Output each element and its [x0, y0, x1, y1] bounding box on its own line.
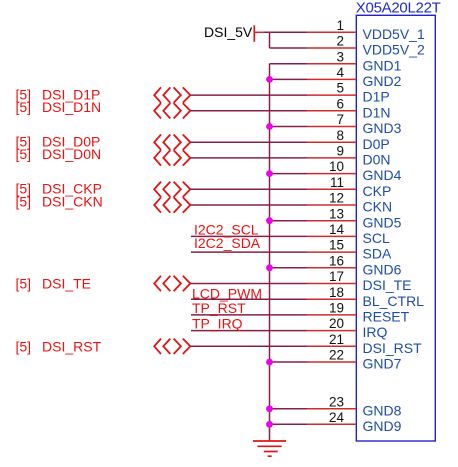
svg-text:SDA: SDA [363, 246, 392, 262]
svg-text:21: 21 [329, 332, 344, 347]
pin 13 number [329, 206, 344, 221]
svg-text:17: 17 [329, 269, 344, 284]
pin 4 (GND2) stub [308, 78, 357, 80]
pin 16 name GND6 [363, 261, 402, 277]
pin 22 (GND7) stub [308, 361, 357, 363]
svg-text:DSI_TE: DSI_TE [42, 276, 91, 292]
pin 1 (VDD5V_1) stub [308, 31, 357, 33]
wire DSI_5V to pin 1 [264, 31, 308, 33]
svg-text:DSI_TE: DSI_TE [363, 277, 412, 293]
svg-text:18: 18 [329, 285, 344, 300]
pin 14 name SCL [363, 230, 390, 246]
junction at pin 10 [266, 170, 273, 177]
svg-text:TP_RST: TP_RST [192, 300, 246, 316]
pin 17 name DSI_TE [363, 277, 412, 293]
label net name DSI_D1P [42, 86, 100, 102]
pin 4 number [336, 65, 344, 80]
svg-text:D0N: D0N [363, 152, 391, 168]
svg-text:I2C2_SDA: I2C2_SDA [194, 235, 261, 251]
svg-text:SCL: SCL [363, 230, 390, 246]
svg-text:16: 16 [329, 253, 344, 268]
svg-text:[5]: [5] [16, 193, 32, 209]
pin 11 number [330, 175, 344, 190]
wire TP_RST to pin 19 [191, 314, 308, 316]
svg-text:DSI_5V: DSI_5V [204, 24, 253, 40]
svg-text:4: 4 [336, 65, 344, 80]
label [5] tag DSI_CKN [16, 193, 32, 209]
svg-text:[5]: [5] [16, 276, 32, 292]
pin 20 name IRQ [363, 324, 388, 340]
label net name TP_RST [192, 300, 246, 316]
wire GND bus to pin 13 [270, 220, 308, 222]
pin 4 name GND2 [363, 73, 402, 89]
wire GND bus to pin 24 [270, 423, 308, 425]
pin 6 (D1N) stub [308, 110, 357, 112]
pin 18 (BL_CTRL) stub [308, 298, 357, 300]
label [5] tag DSI_TE [16, 276, 32, 292]
wire I2C2_SDA to pin 15 [191, 251, 308, 253]
wire DSI_5V to pin 2 [270, 47, 308, 49]
off-page connector DSI_D0N [154, 150, 190, 165]
off-page connector DSI_CKN [154, 197, 190, 212]
pin 17 (DSI_TE) stub [308, 283, 357, 285]
junction at pin 23 [266, 405, 273, 412]
pin 8 number [336, 128, 344, 143]
svg-text:7: 7 [336, 112, 344, 127]
pin 10 number [329, 159, 344, 174]
svg-text:CKN: CKN [363, 199, 393, 215]
pin 8 name D0P [363, 136, 390, 152]
pin 5 number [336, 81, 344, 96]
pin 18 number [329, 285, 344, 300]
pin 14 number [329, 222, 345, 237]
pin 15 number [329, 238, 344, 253]
pin 3 number [336, 49, 344, 64]
label net name I2C2_SDA [194, 235, 261, 251]
svg-text:GND3: GND3 [363, 120, 402, 136]
ground symbol [253, 441, 286, 456]
wire GND bus to pin 16 [270, 267, 308, 269]
connector reference label X05A20L22T [356, 0, 441, 17]
svg-text:1: 1 [336, 18, 344, 33]
label net name DSI_D1N [42, 99, 101, 115]
wire DSI_D1N to pin 6 [191, 110, 308, 112]
pin 6 name D1N [363, 104, 391, 120]
svg-text:GND8: GND8 [363, 402, 402, 418]
svg-text:GND4: GND4 [363, 167, 402, 183]
label net name TP_IRQ [192, 315, 243, 331]
pin 3 name GND1 [363, 57, 402, 73]
svg-text:X05A20L22T: X05A20L22T [356, 0, 441, 17]
pin 22 name GND7 [363, 356, 402, 372]
wire DSI_CKP to pin 11 [191, 188, 308, 190]
svg-text:VDD5V_1: VDD5V_1 [363, 26, 425, 42]
svg-text:DSI_RST: DSI_RST [42, 338, 102, 354]
wire GND bus to pin 3 [270, 63, 308, 65]
svg-text:D0P: D0P [363, 136, 390, 152]
svg-text:RESET: RESET [363, 309, 410, 325]
pin 21 (DSI_RST) stub [308, 345, 357, 347]
pin 20 (IRQ) stub [308, 330, 357, 332]
svg-text:20: 20 [329, 316, 344, 331]
off-page connector DSI_RST [154, 339, 190, 354]
junction at pin 24 [266, 421, 273, 428]
wire TP_IRQ to pin 20 [191, 330, 308, 332]
svg-text:6: 6 [336, 96, 344, 111]
label net name DSI_D0P [42, 134, 100, 150]
junction at pin 7 [266, 123, 273, 130]
svg-text:DSI_RST: DSI_RST [363, 340, 423, 356]
svg-text:DSI_CKN: DSI_CKN [42, 193, 103, 209]
pin 19 name RESET [363, 309, 410, 325]
junction at pin 4 [266, 76, 273, 83]
svg-text:13: 13 [329, 206, 344, 221]
wire DSI_5V lead [254, 31, 263, 33]
svg-text:11: 11 [330, 175, 344, 190]
wire LCD_PWM to pin 18 [191, 298, 308, 300]
svg-text:5: 5 [336, 81, 344, 96]
connector X1 body X05A20L22T [356, 15, 435, 441]
label [5] tag DSI_D0N [16, 146, 32, 162]
off-page connector DSI_D1P [154, 87, 190, 102]
pin 21 number [329, 332, 344, 347]
off-page connector DSI_D1N [154, 103, 190, 118]
label [5] tag DSI_CKP [16, 181, 32, 197]
off-page connector DSI_CKP [154, 182, 190, 197]
svg-text:10: 10 [329, 159, 344, 174]
wire DSI_CKN to pin 12 [191, 204, 308, 206]
pin 20 number [329, 316, 344, 331]
power port DSI_5V bar [253, 25, 255, 42]
label net name LCD_PWM [192, 285, 262, 301]
label net name DSI_CKN [42, 193, 103, 209]
label [5] tag DSI_RST [16, 338, 32, 354]
pin 22 number [329, 348, 344, 363]
pin 16 number [329, 253, 344, 268]
label net name DSI_CKP [42, 181, 102, 197]
label [5] tag DSI_D0P [16, 134, 32, 150]
svg-text:D1P: D1P [363, 89, 390, 105]
svg-text:23: 23 [329, 394, 344, 409]
wire GND bus to pin 7 [270, 126, 308, 128]
svg-text:[5]: [5] [16, 99, 32, 115]
pin 7 (GND3) stub [308, 126, 357, 128]
pin 13 (GND5) stub [308, 220, 357, 222]
wire GND bus to pin 22 [270, 361, 308, 363]
junction at pin 22 [266, 359, 273, 366]
svg-text:[5]: [5] [16, 338, 32, 354]
pin 1 name VDD5V_1 [363, 26, 425, 42]
label net name DSI_RST [42, 338, 102, 354]
svg-text:3: 3 [336, 49, 344, 64]
wire GND bus to pin 10 [270, 173, 308, 175]
pin 9 number [336, 144, 344, 159]
svg-text:GND7: GND7 [363, 356, 402, 372]
pin 17 number [329, 269, 344, 284]
pin 12 number [329, 191, 344, 206]
svg-text:CKP: CKP [363, 183, 392, 199]
svg-text:BL_CTRL: BL_CTRL [363, 293, 425, 309]
svg-text:GND5: GND5 [363, 214, 402, 230]
off-page connector DSI_TE [154, 276, 190, 291]
svg-text:[5]: [5] [16, 146, 32, 162]
svg-text:9: 9 [336, 144, 344, 159]
label net name I2C2_SCL [194, 222, 259, 238]
pin 10 (GND4) stub [308, 173, 357, 175]
svg-text:GND6: GND6 [363, 261, 402, 277]
pin 6 number [336, 96, 344, 111]
label [5] tag DSI_D1N [16, 99, 32, 115]
svg-text:22: 22 [329, 348, 344, 363]
pin 24 (GND9) stub [308, 423, 357, 425]
svg-text:19: 19 [329, 301, 344, 316]
pin 1 number [336, 18, 344, 33]
pin 2 number [336, 34, 344, 49]
pin 21 name DSI_RST [363, 340, 423, 356]
svg-text:12: 12 [329, 191, 344, 206]
pin 18 name BL_CTRL [363, 293, 425, 309]
pin 8 (D0P) stub [308, 141, 357, 143]
wire DSI_TE to pin 17 [191, 283, 308, 285]
pin 23 name GND8 [363, 402, 402, 418]
junction at pin 13 [266, 217, 273, 224]
pin 7 name GND3 [363, 120, 402, 136]
pin 15 (SDA) stub [308, 251, 357, 253]
pin 24 name GND9 [363, 418, 402, 434]
pin 19 (RESET) stub [308, 314, 357, 316]
pin 14 (SCL) stub [308, 235, 357, 237]
pin 2 name VDD5V_2 [363, 42, 425, 58]
pin 5 (D1P) stub [308, 94, 357, 96]
wire DSI_D0N to pin 9 [191, 157, 308, 159]
wire DSI_5V vertical branch [269, 32, 271, 48]
pin 7 number [336, 112, 344, 127]
pin 23 number [329, 394, 344, 409]
label net name DSI_TE [42, 276, 91, 292]
svg-text:GND2: GND2 [363, 73, 402, 89]
wire DSI_D0P to pin 8 [191, 141, 308, 143]
pin 2 (VDD5V_2) stub [308, 47, 357, 49]
pin 12 (CKN) stub [308, 204, 357, 206]
pin 13 name GND5 [363, 214, 402, 230]
pin 10 name GND4 [363, 167, 402, 183]
wire DSI_RST to pin 21 [191, 345, 308, 347]
svg-text:24: 24 [329, 410, 345, 425]
svg-text:TP_IRQ: TP_IRQ [192, 315, 243, 331]
pin 9 name D0N [363, 152, 391, 168]
wire GND bus to pin 4 [270, 78, 308, 80]
svg-text:LCD_PWM: LCD_PWM [192, 285, 262, 301]
svg-text:GND1: GND1 [363, 57, 402, 73]
label [5] tag DSI_D1P [16, 86, 32, 102]
wire DSI_D1P to pin 5 [191, 94, 308, 96]
svg-text:DSI_D1N: DSI_D1N [42, 99, 101, 115]
pin 11 (CKP) stub [308, 188, 357, 190]
off-page connector DSI_D0P [154, 135, 190, 150]
pin 15 name SDA [363, 246, 392, 262]
svg-text:15: 15 [329, 238, 344, 253]
pin 3 (GND1) stub [308, 63, 357, 65]
svg-text:DSI_D0N: DSI_D0N [42, 146, 101, 162]
pin 5 name D1P [363, 89, 390, 105]
pin 19 number [329, 301, 344, 316]
pin 23 (GND8) stub [308, 408, 357, 410]
wire GND bus to pin 23 [270, 408, 308, 410]
svg-text:GND9: GND9 [363, 418, 402, 434]
wire I2C2_SCL to pin 14 [191, 235, 308, 237]
wire GND vertical bus [269, 64, 271, 441]
pin 9 (D0N) stub [308, 157, 357, 159]
svg-text:14: 14 [329, 222, 345, 237]
svg-text:2: 2 [336, 34, 344, 49]
svg-text:VDD5V_2: VDD5V_2 [363, 42, 425, 58]
svg-text:8: 8 [336, 128, 344, 143]
pin 11 name CKP [363, 183, 392, 199]
pin 16 (GND6) stub [308, 267, 357, 269]
pin 12 name CKN [363, 199, 393, 215]
junction at pin 16 [266, 264, 273, 271]
svg-text:D1N: D1N [363, 104, 391, 120]
svg-text:IRQ: IRQ [363, 324, 388, 340]
power port DSI_5V label [204, 24, 253, 40]
pin 24 number [329, 410, 345, 425]
label net name DSI_D0N [42, 146, 101, 162]
